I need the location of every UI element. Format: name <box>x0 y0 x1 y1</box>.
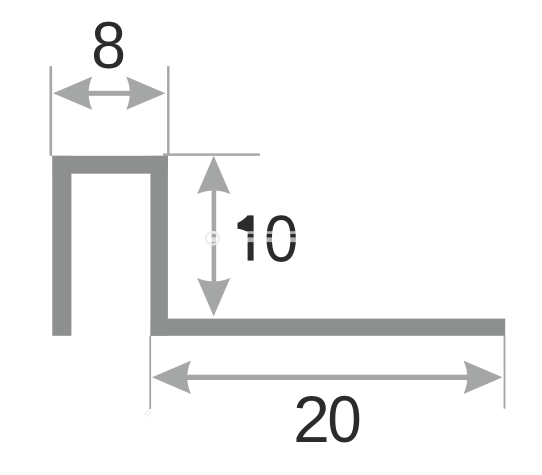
svg-text:8: 8 <box>91 9 126 83</box>
svg-text:0: 0 <box>327 382 361 456</box>
dim arrow 10 (vertical double-headed) <box>197 156 230 317</box>
watermark light band 2 <box>206 237 331 242</box>
profile right leg <box>150 156 168 336</box>
watermark letter o ring over arrow shaft <box>206 232 220 244</box>
dim text 10 : digit 1 (custom path) <box>238 215 254 260</box>
profile top bar <box>52 156 168 174</box>
dim arrow 20 (horizontal double-headed) <box>152 361 503 394</box>
extension line left of dim 8 <box>50 66 53 156</box>
extension line top of dim 10 <box>163 153 260 155</box>
extension line right of dim 20 <box>504 336 506 409</box>
extension line right of dim 8 <box>167 66 169 156</box>
profile bottom bar <box>150 319 505 336</box>
extension line left of dim 20 <box>149 336 151 409</box>
watermark faint hatch fragment near 20 extension line <box>144 409 152 417</box>
profile left leg <box>52 156 71 336</box>
dim arrow 8 (horizontal double-headed) <box>53 77 165 110</box>
svg-text:2: 2 <box>293 382 330 456</box>
watermark light band 1 (crosses digits of 10 and arrow shaft) <box>206 231 331 234</box>
